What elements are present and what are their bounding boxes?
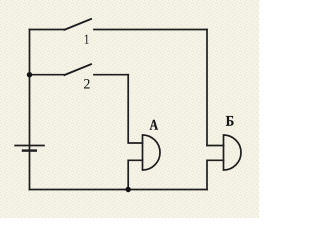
wire: right vertical to bell B top pin — [206, 30, 208, 146]
wire: bell B bottom pin down to bottom bus — [207, 160, 224, 189]
switch 1 blade — [65, 19, 92, 30]
switch 2 blade — [65, 64, 92, 75]
wire: bell A bottom pin down to bottom bus — [128, 160, 142, 189]
wire: branch 2 right segment — [94, 74, 128, 76]
label 2 (switch 2) — [84, 79, 90, 88]
battery G1 short plate — [22, 149, 37, 151]
wire: branch 2 left segment — [30, 74, 65, 76]
node: junction of bell A return with bottom bus — [126, 187, 131, 192]
node: junction of branch 2 with left vertical — [27, 72, 32, 77]
bell A body — [143, 135, 161, 170]
battery G1 long plate — [14, 145, 45, 147]
label 1 (switch 1) — [85, 35, 89, 44]
label B (bell B) — [226, 116, 234, 126]
wire: left vertical (battery branch) — [29, 30, 31, 190]
wire: bell B top pin stub — [207, 145, 224, 147]
wire: bottom bus — [30, 189, 208, 191]
wire: vertical drop to bell A top pin — [128, 75, 142, 143]
bell B body — [224, 135, 242, 170]
label A (bell A) — [150, 120, 158, 130]
wire: top bus right segment — [94, 29, 207, 31]
wire: top bus left segment — [30, 29, 65, 31]
